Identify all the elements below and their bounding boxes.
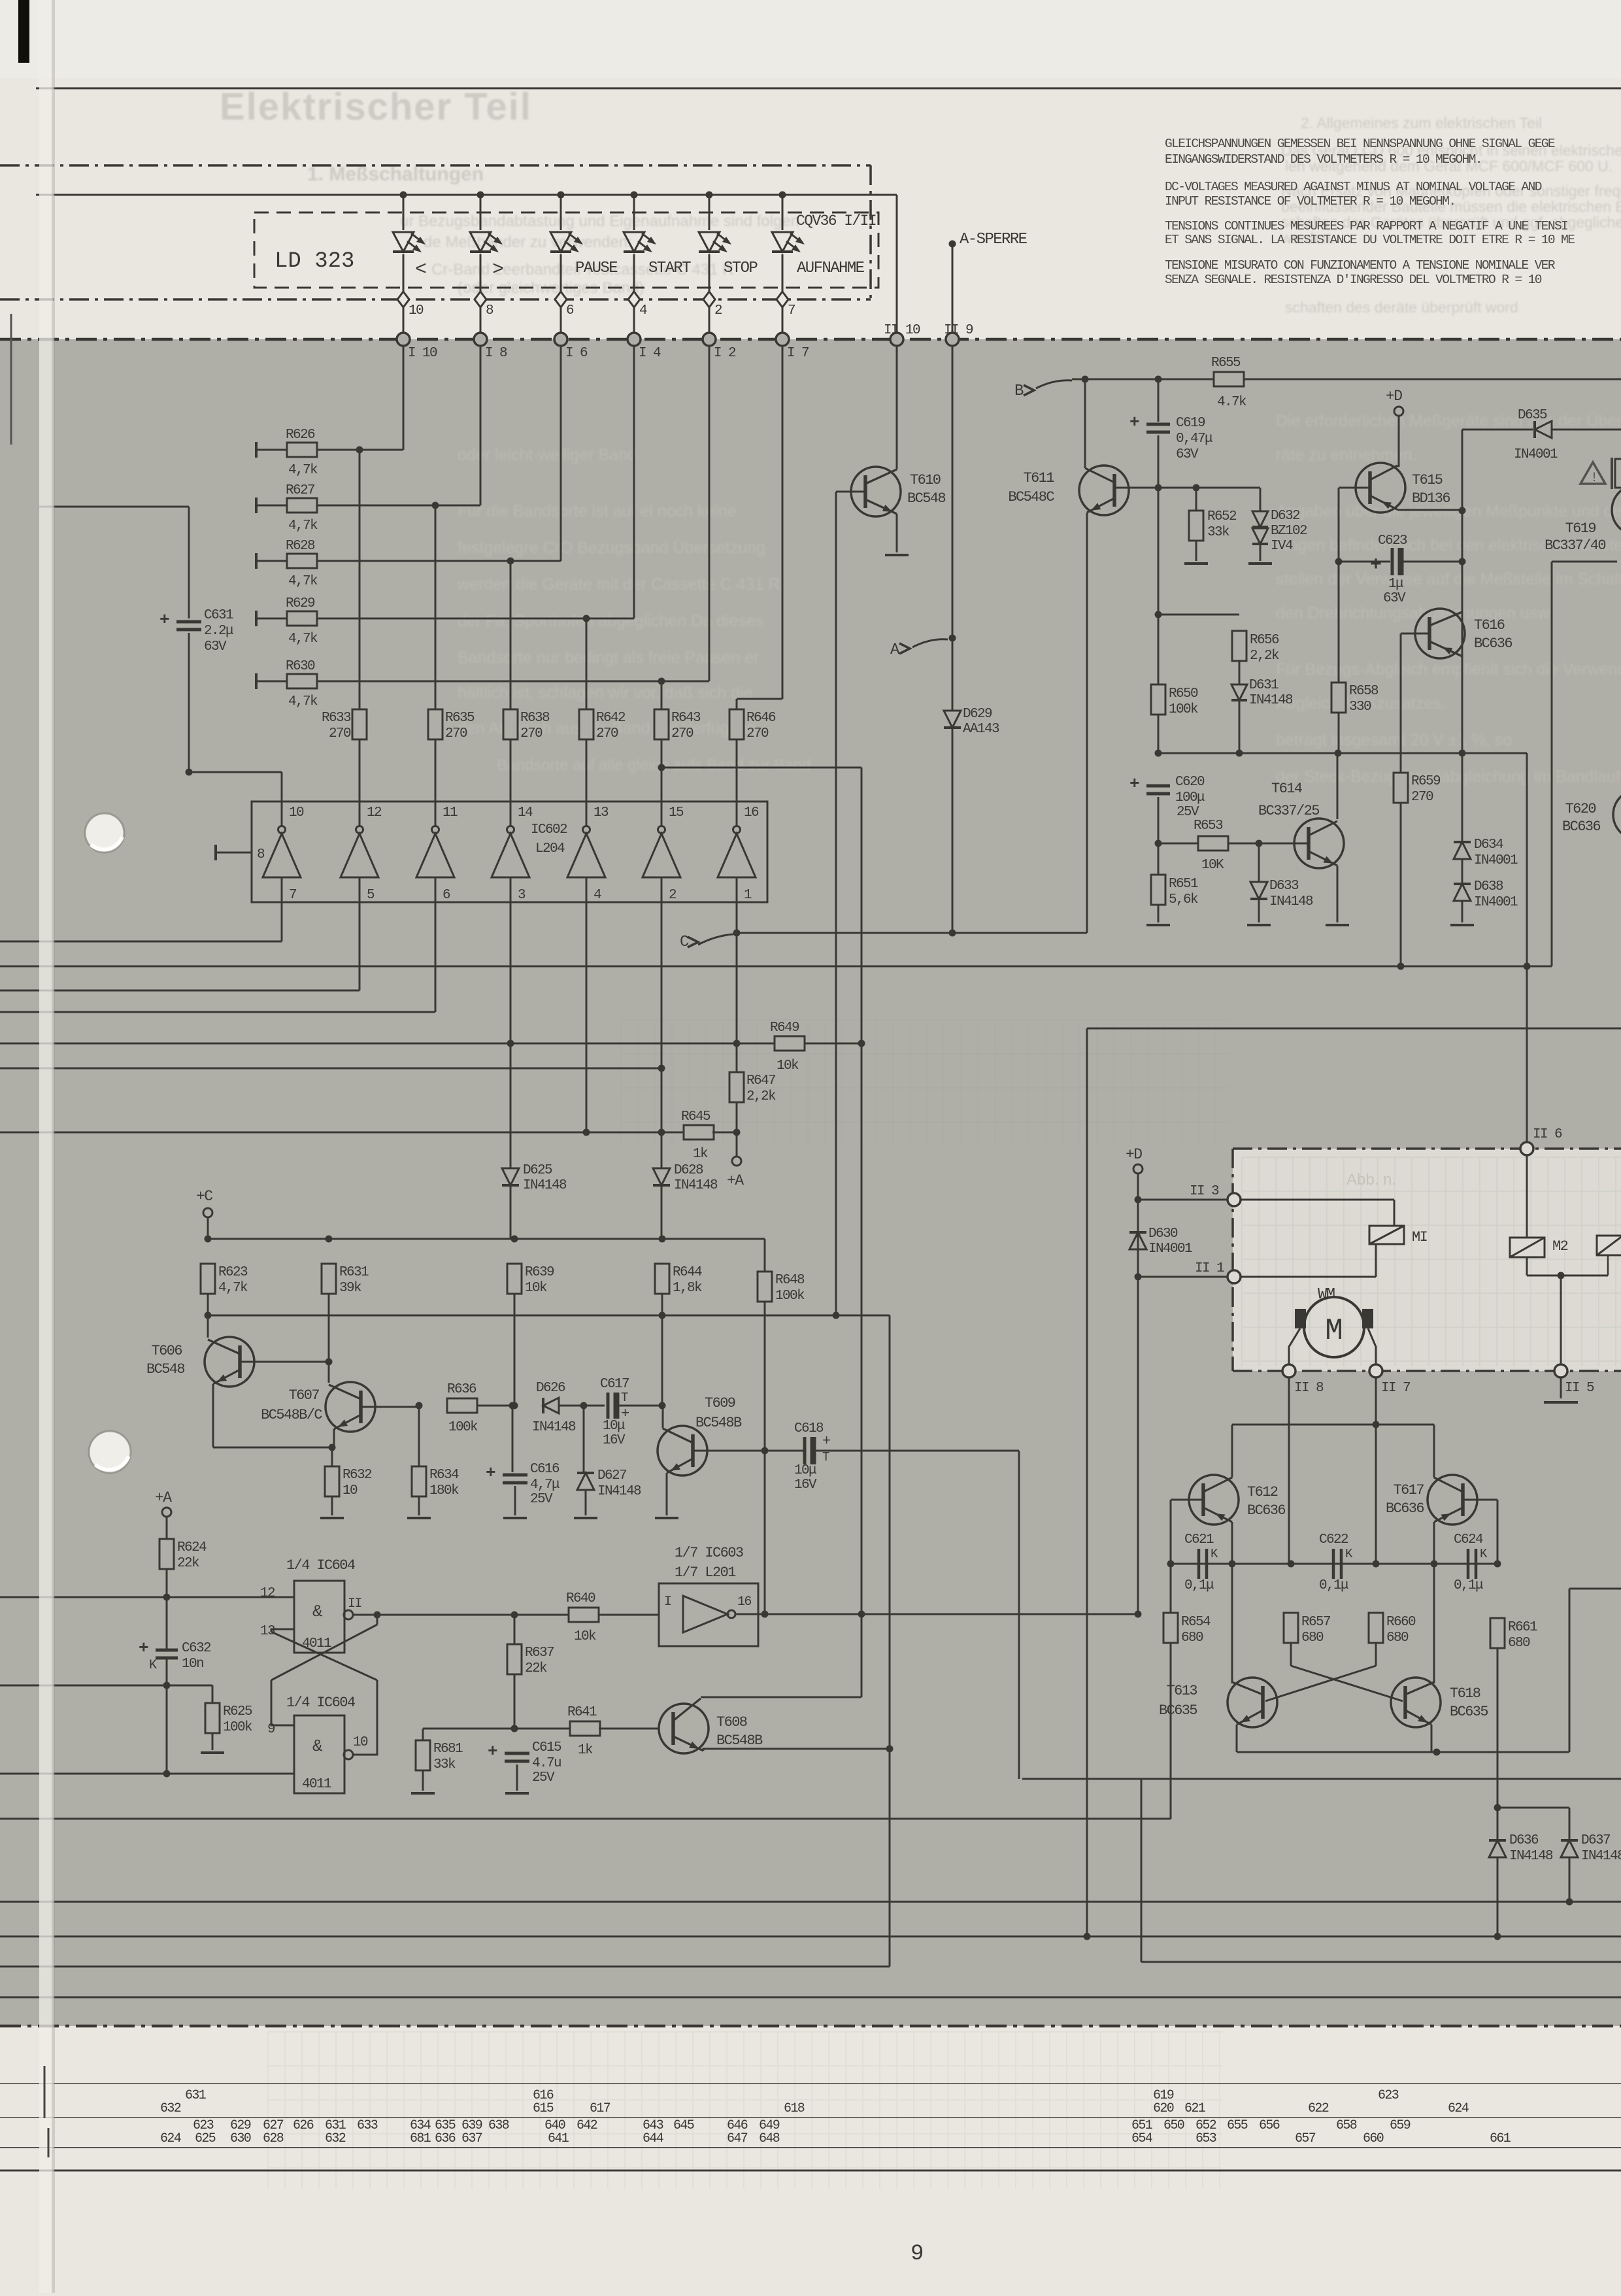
svg-text:K: K xyxy=(149,1658,157,1673)
svg-text:BZ102: BZ102 xyxy=(1271,524,1307,539)
svg-text:BC636: BC636 xyxy=(1562,819,1600,835)
svg-text:4,7k: 4,7k xyxy=(288,463,318,478)
svg-text:T: T xyxy=(822,1450,829,1464)
svg-text:D626: D626 xyxy=(536,1381,565,1396)
svg-text:10: 10 xyxy=(353,1735,368,1750)
svg-text:R660: R660 xyxy=(1386,1615,1416,1630)
svg-text:270: 270 xyxy=(596,726,618,741)
svg-text:2,2k: 2,2k xyxy=(746,1089,776,1104)
svg-text:T607: T607 xyxy=(289,1387,320,1404)
svg-text:R638: R638 xyxy=(520,711,550,726)
svg-text:100k: 100k xyxy=(775,1289,805,1304)
svg-text:10μ: 10μ xyxy=(603,1419,625,1434)
svg-text:4,7k: 4,7k xyxy=(288,694,318,709)
svg-text:Abb. n.: Abb. n. xyxy=(1346,1171,1396,1189)
svg-text:R645: R645 xyxy=(681,1109,710,1124)
svg-text:LD 323: LD 323 xyxy=(275,249,354,274)
svg-text:+A: +A xyxy=(155,1489,172,1506)
svg-text:C631: C631 xyxy=(204,608,233,623)
svg-text:+: + xyxy=(139,1638,148,1658)
svg-text:C616: C616 xyxy=(530,1462,560,1477)
svg-text:IN4148: IN4148 xyxy=(674,1178,718,1193)
svg-text:II 1: II 1 xyxy=(1195,1261,1224,1276)
svg-text:4011: 4011 xyxy=(302,1636,331,1651)
svg-text:1k: 1k xyxy=(578,1743,593,1758)
svg-text:B: B xyxy=(1014,382,1024,400)
svg-text:622: 622 xyxy=(1308,2101,1329,2116)
svg-text:+C: +C xyxy=(196,1188,212,1205)
svg-text:D629: D629 xyxy=(963,707,992,722)
svg-text:13: 13 xyxy=(593,805,609,820)
svg-text:PAUSE: PAUSE xyxy=(575,260,618,277)
svg-text:680: 680 xyxy=(1181,1630,1203,1646)
svg-text:4,7k: 4,7k xyxy=(288,574,318,589)
svg-text:4011: 4011 xyxy=(302,1777,331,1792)
svg-text:D630: D630 xyxy=(1148,1226,1178,1241)
svg-text:II 5: II 5 xyxy=(1565,1381,1594,1396)
svg-text:CQV36 I/II: CQV36 I/II xyxy=(796,212,876,229)
svg-text:R637: R637 xyxy=(525,1646,554,1661)
svg-text:630: 630 xyxy=(230,2131,251,2146)
svg-text:IN4001: IN4001 xyxy=(1474,853,1518,868)
svg-text:633: 633 xyxy=(357,2118,378,2133)
svg-text:15: 15 xyxy=(669,805,684,820)
svg-text:II: II xyxy=(348,1596,361,1612)
svg-text:10k: 10k xyxy=(525,1281,547,1296)
svg-text:680: 680 xyxy=(1301,1630,1324,1646)
svg-text:Bandsorte nur bedingt als frei: Bandsorte nur bedingt als freie Pausen e… xyxy=(458,649,759,667)
svg-text:T609: T609 xyxy=(705,1395,735,1411)
svg-text:T617: T617 xyxy=(1394,1482,1424,1498)
svg-text:T620: T620 xyxy=(1565,801,1596,817)
svg-text:R643: R643 xyxy=(671,711,701,726)
svg-text:IN4001: IN4001 xyxy=(1474,895,1518,910)
svg-text:R626: R626 xyxy=(286,428,315,443)
svg-text:<: < xyxy=(415,259,427,281)
svg-text:621: 621 xyxy=(1184,2101,1206,2116)
svg-text:D628: D628 xyxy=(674,1163,703,1178)
svg-text:63V: 63V xyxy=(204,639,227,654)
svg-text:R625: R625 xyxy=(223,1704,252,1719)
svg-text:645: 645 xyxy=(673,2118,694,2133)
svg-text:270: 270 xyxy=(329,726,351,741)
svg-text:II 3: II 3 xyxy=(1190,1184,1219,1199)
svg-text:1/4 IC604: 1/4 IC604 xyxy=(286,1557,356,1574)
svg-text:638: 638 xyxy=(488,2118,509,2133)
svg-text:BD136: BD136 xyxy=(1412,490,1450,507)
svg-text:2.2μ: 2.2μ xyxy=(204,624,233,639)
svg-text:10n: 10n xyxy=(182,1657,203,1672)
svg-text:615: 615 xyxy=(533,2101,554,2116)
svg-text:620: 620 xyxy=(1153,2101,1174,2116)
svg-text:0,47μ: 0,47μ xyxy=(1176,431,1212,447)
svg-text:IN4148: IN4148 xyxy=(532,1420,576,1435)
svg-text:T610: T610 xyxy=(910,472,941,488)
svg-text:+D: +D xyxy=(1126,1146,1142,1163)
svg-text:R636: R636 xyxy=(447,1382,476,1397)
svg-text:A-SPERRE: A-SPERRE xyxy=(960,231,1028,248)
svg-text:16: 16 xyxy=(737,1595,751,1610)
svg-text:6: 6 xyxy=(566,303,574,318)
svg-text:C624: C624 xyxy=(1454,1532,1483,1547)
svg-text:648: 648 xyxy=(759,2131,780,2146)
svg-text:1/7 IC603: 1/7 IC603 xyxy=(675,1545,743,1561)
svg-text:0,1μ: 0,1μ xyxy=(1184,1578,1214,1593)
svg-text:2: 2 xyxy=(714,303,722,318)
svg-text:5: 5 xyxy=(367,888,375,903)
svg-text:39k: 39k xyxy=(339,1281,361,1296)
svg-text:L204: L204 xyxy=(535,841,565,856)
svg-text:BC548C: BC548C xyxy=(1008,489,1054,505)
svg-text:1/7 L201: 1/7 L201 xyxy=(675,1564,736,1581)
svg-text:10: 10 xyxy=(409,303,424,318)
svg-text:+: + xyxy=(1129,413,1139,432)
svg-text:11: 11 xyxy=(443,805,458,820)
svg-text:oder leicht-welliger Band: oder leicht-welliger Band xyxy=(458,446,637,464)
svg-text:BC337/40: BC337/40 xyxy=(1545,537,1605,554)
svg-text:T606: T606 xyxy=(152,1343,182,1359)
svg-text:+A: +A xyxy=(727,1172,744,1189)
svg-text:16V: 16V xyxy=(603,1433,626,1448)
svg-text:R630: R630 xyxy=(286,659,315,674)
svg-text:R656: R656 xyxy=(1250,633,1279,648)
svg-text:C620: C620 xyxy=(1175,775,1205,790)
svg-text:624: 624 xyxy=(160,2131,181,2146)
svg-text:4,7k: 4,7k xyxy=(218,1281,248,1296)
svg-text:T619: T619 xyxy=(1565,520,1596,537)
svg-text:623: 623 xyxy=(1378,2088,1399,2103)
svg-text:hältlich ist, schlagen wir vor: hältlich ist, schlagen wir vor, daß sich… xyxy=(458,684,753,702)
svg-text:681: 681 xyxy=(410,2131,431,2146)
svg-text:I 2: I 2 xyxy=(714,346,736,361)
svg-text:270: 270 xyxy=(520,726,543,741)
svg-text:628: 628 xyxy=(263,2131,284,2146)
svg-text:ET SANS SIGNAL. LA RESISTANCE: ET SANS SIGNAL. LA RESISTANCE DU VOLTMET… xyxy=(1165,233,1575,247)
svg-text:680: 680 xyxy=(1508,1636,1530,1651)
svg-text:GLEICHSPANNUNGEN GEMESSEN BEI: GLEICHSPANNUNGEN GEMESSEN BEI NENNSPANNU… xyxy=(1165,137,1555,151)
svg-text:5,6k: 5,6k xyxy=(1169,892,1198,907)
svg-text:R681: R681 xyxy=(433,1742,463,1757)
svg-text:&: & xyxy=(312,1602,323,1621)
svg-text:661: 661 xyxy=(1490,2131,1511,2146)
svg-text:IN4001: IN4001 xyxy=(1148,1241,1192,1257)
svg-text:stellen der Verweise auf die M: stellen der Verweise auf die Meßstelle i… xyxy=(1276,570,1621,588)
svg-text:657: 657 xyxy=(1295,2131,1316,2146)
svg-text:632: 632 xyxy=(160,2101,181,2116)
svg-text:C615: C615 xyxy=(532,1740,561,1755)
svg-text:R646: R646 xyxy=(746,711,776,726)
svg-text:T: T xyxy=(621,1391,628,1405)
svg-text:270: 270 xyxy=(1411,790,1433,805)
svg-text:IN4148: IN4148 xyxy=(597,1484,641,1499)
svg-text:T614: T614 xyxy=(1271,781,1303,797)
svg-text:IV4: IV4 xyxy=(1271,539,1293,554)
svg-text:680: 680 xyxy=(1386,1630,1409,1646)
svg-text:I 8: I 8 xyxy=(485,346,507,361)
svg-text:BC635: BC635 xyxy=(1450,1704,1488,1720)
svg-text:330: 330 xyxy=(1349,700,1371,715)
svg-text:C623: C623 xyxy=(1378,533,1407,549)
svg-text:BC636: BC636 xyxy=(1386,1500,1424,1517)
svg-text:16: 16 xyxy=(744,805,759,820)
svg-text:I: I xyxy=(664,1595,671,1610)
svg-text:II 8: II 8 xyxy=(1294,1381,1324,1396)
svg-text:T613: T613 xyxy=(1167,1683,1197,1699)
svg-text:637: 637 xyxy=(461,2131,482,2146)
svg-text:10k: 10k xyxy=(574,1629,596,1644)
svg-text:D636: D636 xyxy=(1509,1833,1539,1848)
svg-text:IN4148: IN4148 xyxy=(1581,1849,1621,1864)
svg-text:II 9: II 9 xyxy=(944,323,973,338)
svg-text:33k: 33k xyxy=(433,1757,456,1772)
svg-text:&: & xyxy=(312,1736,323,1756)
svg-text:100μ: 100μ xyxy=(1175,790,1205,805)
svg-text:D625: D625 xyxy=(523,1163,552,1178)
svg-text:BC636: BC636 xyxy=(1474,635,1512,652)
svg-text:!: ! xyxy=(1590,471,1597,486)
svg-text:617: 617 xyxy=(590,2101,610,2116)
svg-text:12: 12 xyxy=(260,1586,275,1601)
svg-text:R655: R655 xyxy=(1211,356,1241,371)
svg-text:R654: R654 xyxy=(1181,1615,1211,1630)
svg-text:R653: R653 xyxy=(1194,819,1223,834)
svg-text:100k: 100k xyxy=(223,1720,252,1735)
svg-text:63V: 63V xyxy=(1383,591,1406,606)
svg-text:4: 4 xyxy=(593,888,601,903)
svg-text:>: > xyxy=(492,259,504,281)
svg-text:T612: T612 xyxy=(1247,1484,1278,1500)
svg-text:12: 12 xyxy=(367,805,382,820)
svg-text:IN4001: IN4001 xyxy=(1514,447,1558,462)
svg-text:100k: 100k xyxy=(448,1420,478,1435)
svg-text:+: + xyxy=(159,610,169,630)
svg-text:den Drehrichtungsabgleichungen: den Drehrichtungsabgleichungen usw. xyxy=(1276,604,1553,622)
svg-text:+: + xyxy=(1129,774,1139,794)
svg-text:63V: 63V xyxy=(1176,447,1199,462)
svg-text:14: 14 xyxy=(518,805,533,820)
svg-text:22k: 22k xyxy=(525,1661,547,1676)
svg-text:270: 270 xyxy=(445,726,467,741)
svg-text:D634: D634 xyxy=(1474,837,1503,853)
svg-text:R631: R631 xyxy=(339,1265,369,1280)
svg-text:180k: 180k xyxy=(429,1483,459,1498)
svg-text:C632: C632 xyxy=(182,1641,211,1656)
svg-text:D633: D633 xyxy=(1269,879,1299,894)
svg-text:R640: R640 xyxy=(566,1591,595,1606)
svg-text:BC548: BC548 xyxy=(146,1361,184,1377)
svg-text:R642: R642 xyxy=(596,711,626,726)
svg-text:1/4 IC604: 1/4 IC604 xyxy=(286,1695,356,1711)
svg-text:4.7k: 4.7k xyxy=(1217,395,1246,410)
svg-text:4: 4 xyxy=(639,303,647,318)
svg-text:R627: R627 xyxy=(286,483,314,498)
svg-text:R644: R644 xyxy=(673,1265,702,1280)
svg-text:25V: 25V xyxy=(530,1492,553,1507)
svg-text:33k: 33k xyxy=(1207,525,1229,540)
svg-text:werden die Geräte mit der Cass: werden die Geräte mit der Cassette C 431… xyxy=(457,575,780,594)
svg-text:der Fa. Sporthofen abgeglichen: der Fa. Sporthofen abgeglichen Da dieses xyxy=(458,612,763,630)
svg-text:C617: C617 xyxy=(600,1377,629,1392)
svg-text:IN4148: IN4148 xyxy=(523,1178,567,1193)
svg-text:270: 270 xyxy=(746,726,769,741)
svg-text:2. Allgemeines zum elektrische: 2. Allgemeines zum elektrischen Teil xyxy=(1301,114,1542,131)
svg-text:DC-VOLTAGES MEASURED AGAINST M: DC-VOLTAGES MEASURED AGAINST MINUS AT NO… xyxy=(1165,180,1542,194)
svg-text:de Meßbänder zu verwenden:: de Meßbänder zu verwenden: xyxy=(424,233,632,251)
svg-text:T611: T611 xyxy=(1024,470,1055,486)
svg-text:II 7: II 7 xyxy=(1381,1381,1410,1396)
svg-text:START: START xyxy=(648,260,691,277)
svg-text:10: 10 xyxy=(289,805,304,820)
svg-text:R624: R624 xyxy=(177,1540,207,1555)
svg-text:IN4148: IN4148 xyxy=(1509,1849,1553,1864)
svg-text:8: 8 xyxy=(486,303,493,318)
svg-text:BC548B: BC548B xyxy=(695,1415,742,1431)
svg-text:R648: R648 xyxy=(775,1273,805,1288)
svg-text:Elektrischer Teil: Elektrischer Teil xyxy=(220,86,532,128)
svg-text:BC636: BC636 xyxy=(1247,1502,1285,1519)
svg-text:schaften des deräte überprüft: schaften des deräte überprüft word xyxy=(1285,299,1518,316)
svg-text:Für die Bandsorte ist auf el n: Für die Bandsorte ist auf el noch keine xyxy=(458,502,737,520)
svg-text:R650: R650 xyxy=(1169,686,1198,701)
svg-text:7: 7 xyxy=(788,303,795,318)
svg-text:10μ: 10μ xyxy=(794,1463,816,1478)
svg-text:Bandsorte auf alle gleich aufs: Bandsorte auf alle gleich aufs Band zur … xyxy=(497,756,811,774)
svg-text:655: 655 xyxy=(1227,2118,1248,2133)
svg-text:1: 1 xyxy=(744,888,752,903)
svg-text:1,8k: 1,8k xyxy=(673,1281,702,1296)
svg-text:10k: 10k xyxy=(777,1058,799,1073)
svg-text:0,1μ: 0,1μ xyxy=(1319,1578,1348,1593)
svg-text:10K: 10K xyxy=(1201,858,1224,873)
svg-text:4.7u: 4.7u xyxy=(532,1756,561,1771)
svg-text:T616: T616 xyxy=(1474,617,1505,633)
svg-text:R661: R661 xyxy=(1508,1620,1537,1635)
svg-text:BC337/25: BC337/25 xyxy=(1258,803,1319,819)
svg-text:641: 641 xyxy=(548,2131,569,2146)
svg-text:D627: D627 xyxy=(597,1468,626,1483)
svg-text:IC602: IC602 xyxy=(531,822,567,837)
svg-text:644: 644 xyxy=(643,2131,663,2146)
svg-text:R633: R633 xyxy=(322,711,351,726)
svg-text:R659: R659 xyxy=(1411,774,1441,789)
svg-text:3: 3 xyxy=(518,888,526,903)
svg-text:I 7: I 7 xyxy=(787,346,809,361)
svg-text:+: + xyxy=(488,1742,497,1761)
svg-text:BC548B: BC548B xyxy=(716,1732,763,1749)
svg-text:I 6: I 6 xyxy=(565,346,588,361)
svg-text:22k: 22k xyxy=(177,1556,199,1571)
svg-text:13: 13 xyxy=(260,1624,275,1639)
svg-text:658: 658 xyxy=(1336,2118,1357,2133)
svg-text:+D: +D xyxy=(1386,388,1402,405)
svg-text:BC548B/C: BC548B/C xyxy=(261,1407,322,1423)
svg-text:TENSIONE MISURATO CON FUNZIONA: TENSIONE MISURATO CON FUNZIONAMENTO A TE… xyxy=(1165,258,1556,273)
svg-text:R657: R657 xyxy=(1301,1615,1330,1630)
svg-text:4,7k: 4,7k xyxy=(288,632,318,647)
svg-text:II 6: II 6 xyxy=(1533,1127,1562,1142)
svg-text:631: 631 xyxy=(185,2088,207,2103)
svg-text:II 10: II 10 xyxy=(884,323,920,338)
svg-text:R647: R647 xyxy=(746,1073,775,1089)
svg-text:Die erforderlichen Meßgeräte s: Die erforderlichen Meßgeräte sind aus de… xyxy=(1276,412,1621,430)
svg-text:IN4148: IN4148 xyxy=(1249,693,1293,708)
svg-text:R641: R641 xyxy=(567,1705,597,1720)
svg-text:4,7k: 4,7k xyxy=(288,518,318,533)
svg-text:ur Bezugsbandabtastung und Eig: ur Bezugsbandabtastung und Eigenaufnahme… xyxy=(400,212,799,230)
svg-text:AA143: AA143 xyxy=(963,722,999,737)
svg-text:618: 618 xyxy=(784,2101,805,2116)
svg-text:D638: D638 xyxy=(1474,879,1503,894)
svg-text:653: 653 xyxy=(1195,2131,1216,2146)
svg-text:T615: T615 xyxy=(1412,472,1443,488)
svg-text:D632: D632 xyxy=(1271,509,1300,524)
svg-text:C621: C621 xyxy=(1184,1532,1214,1547)
svg-text:650: 650 xyxy=(1163,2118,1184,2133)
svg-text:BC635: BC635 xyxy=(1159,1702,1197,1719)
svg-text:2,2k: 2,2k xyxy=(1250,649,1279,664)
svg-text:1μ: 1μ xyxy=(1388,577,1403,592)
svg-text:660: 660 xyxy=(1363,2131,1384,2146)
svg-text:AUFNAHME: AUFNAHME xyxy=(797,260,865,277)
svg-text:TENSIONS CONTINUES MESUREES PA: TENSIONS CONTINUES MESUREES PAR RAPPORT … xyxy=(1165,219,1567,233)
svg-text:100k: 100k xyxy=(1169,702,1198,717)
svg-text:6: 6 xyxy=(443,888,450,903)
svg-text:EINGANGSWIDERSTAND DES VOLTMET: EINGANGSWIDERSTAND DES VOLTMETERS R = 10… xyxy=(1165,152,1482,167)
svg-text:C: C xyxy=(680,934,689,951)
svg-text:D637: D637 xyxy=(1581,1833,1610,1848)
svg-text:+: + xyxy=(486,1463,495,1483)
svg-text:0,1μ: 0,1μ xyxy=(1454,1578,1483,1593)
svg-text:T618: T618 xyxy=(1450,1685,1480,1702)
svg-text:SENZA SEGNALE. RESISTENZA D'IN: SENZA SEGNALE. RESISTENZA D'INGRESSO DEL… xyxy=(1165,273,1542,287)
svg-text:+: + xyxy=(1370,554,1382,577)
svg-text:632: 632 xyxy=(325,2131,346,2146)
svg-text:R651: R651 xyxy=(1169,877,1198,892)
svg-text:647: 647 xyxy=(727,2131,748,2146)
svg-text:659: 659 xyxy=(1390,2118,1411,2133)
svg-text:656: 656 xyxy=(1259,2118,1280,2133)
svg-text:C619: C619 xyxy=(1176,416,1205,431)
svg-text:624: 624 xyxy=(1448,2101,1469,2116)
svg-text:625: 625 xyxy=(195,2131,216,2146)
svg-text:beträgt insgesamt 20 V ±1 %, s: beträgt insgesamt 20 V ±1 %, so xyxy=(1276,731,1512,749)
svg-text:räte zu entnehmen.: räte zu entnehmen. xyxy=(1276,446,1416,464)
svg-text:IN4148: IN4148 xyxy=(1269,894,1313,909)
svg-text:C622: C622 xyxy=(1319,1532,1348,1547)
svg-text:636: 636 xyxy=(435,2131,456,2146)
svg-text:642: 642 xyxy=(577,2118,597,2133)
svg-text:R639: R639 xyxy=(525,1265,554,1280)
svg-text:I 4: I 4 xyxy=(639,346,661,361)
svg-text:1k: 1k xyxy=(693,1147,708,1162)
svg-text:T608: T608 xyxy=(716,1714,747,1730)
svg-text:25V: 25V xyxy=(532,1770,555,1785)
svg-text:10: 10 xyxy=(343,1483,358,1498)
svg-text:R658: R658 xyxy=(1349,684,1379,699)
svg-text:MI: MI xyxy=(1412,1229,1428,1245)
svg-text:2: 2 xyxy=(669,888,677,903)
svg-text:D635: D635 xyxy=(1518,408,1547,423)
svg-text:270: 270 xyxy=(671,726,694,741)
svg-text:7: 7 xyxy=(289,888,296,903)
svg-text:R623: R623 xyxy=(218,1265,248,1280)
svg-text:M: M xyxy=(1325,1314,1343,1348)
svg-text:654: 654 xyxy=(1131,2131,1152,2146)
svg-text:Für Bezugs-Abgleich empfiehlt: Für Bezugs-Abgleich empfiehlt sich die V… xyxy=(1276,660,1621,679)
svg-text:STOP: STOP xyxy=(724,260,758,277)
svg-text:der Steck-Bezugsbandabgleichun: der Steck-Bezugsbandabgleichung im Bandl… xyxy=(1276,768,1621,786)
svg-text:1. Meßschaltungen: 1. Meßschaltungen xyxy=(307,163,484,185)
